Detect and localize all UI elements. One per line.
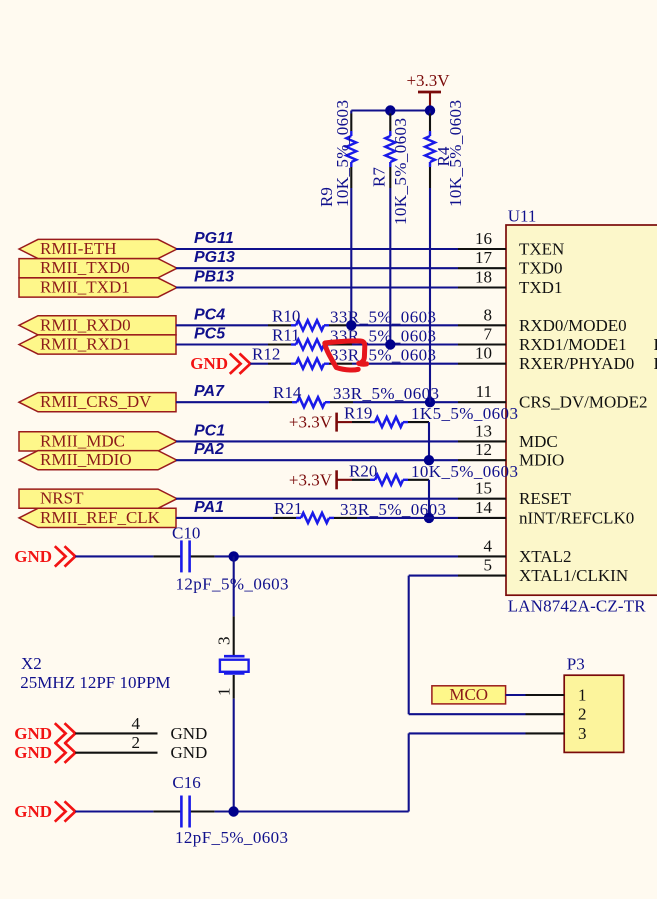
- svg-text:C10: C10: [172, 524, 200, 543]
- resistor R14 33R: [176, 401, 269, 403]
- svg-text:2: 2: [578, 705, 587, 724]
- junction RXD0/R9: [346, 320, 356, 330]
- junction nINT/R20: [424, 513, 434, 523]
- wire XTAL2 down: [233, 556, 235, 616]
- wire R20 to nINT: [428, 480, 430, 518]
- junction rail/R7: [385, 105, 395, 115]
- svg-text:4: 4: [484, 536, 493, 555]
- svg-text:GND: GND: [14, 802, 52, 821]
- svg-text:RMII_TXD0: RMII_TXD0: [40, 258, 130, 277]
- power port GND (X2 pin2): [65, 743, 76, 763]
- IC U11 LAN8742A body: [506, 225, 657, 595]
- svg-text:PG11: PG11: [194, 230, 234, 247]
- wire +3.3V rail: [351, 109, 430, 111]
- svg-text:16: 16: [475, 229, 492, 248]
- wire NRST row: [176, 498, 458, 500]
- svg-text:R19: R19: [344, 404, 372, 423]
- U11 pin 15 RESET: [458, 498, 506, 500]
- svg-text:PB13: PB13: [194, 269, 234, 286]
- resistor R12 33R: [250, 363, 268, 365]
- svg-text:4: 4: [132, 714, 141, 733]
- wire R19 to MDIO: [428, 422, 430, 460]
- svg-text:NRST: NRST: [40, 489, 84, 508]
- resistor R21 33R: [176, 517, 273, 519]
- svg-text:XTAL2: XTAL2: [519, 547, 571, 566]
- U11 pin 13 MDC: [458, 440, 506, 442]
- port RMII_MDC: [19, 432, 177, 451]
- svg-text:RMII-ETH: RMII-ETH: [40, 239, 116, 258]
- U11 pin 5 XTAL1/CLKIN: [458, 575, 506, 577]
- P3 pin 2: [526, 713, 565, 715]
- svg-text:GND: GND: [190, 354, 228, 373]
- svg-text:17: 17: [475, 248, 493, 267]
- svg-text:MCO: MCO: [449, 685, 488, 704]
- wire XTAL1/CLKIN: [409, 575, 458, 577]
- svg-text:33R_5%_0603: 33R_5%_0603: [330, 307, 436, 326]
- svg-text:RXD1/MODE1: RXD1/MODE1: [519, 335, 627, 354]
- port RMII_CRS_DV: [19, 393, 176, 412]
- svg-text:1K5_5%_0603: 1K5_5%_0603: [411, 404, 518, 423]
- annotation red circle around R12 value: [325, 341, 367, 370]
- wire PB13 row: [176, 286, 458, 288]
- wire PG11 row: [176, 248, 458, 250]
- svg-text:GND: GND: [14, 547, 52, 566]
- P3 pin 1: [526, 694, 565, 696]
- svg-text:TXEN: TXEN: [519, 240, 564, 259]
- connector P3 body: [564, 675, 624, 752]
- svg-text:10K_5%_0603: 10K_5%_0603: [391, 118, 410, 225]
- svg-text:25MHZ 12PF 10PPM: 25MHZ 12PF 10PPM: [20, 673, 170, 692]
- svg-text:R14: R14: [273, 383, 302, 402]
- svg-text:RMII_CRS_DV: RMII_CRS_DV: [40, 392, 152, 411]
- svg-text:R20: R20: [349, 461, 377, 480]
- power port GND (C16): [65, 801, 76, 821]
- svg-text:10K_5%_0603: 10K_5%_0603: [333, 100, 352, 207]
- svg-text:13: 13: [475, 421, 492, 440]
- svg-text:MDC: MDC: [519, 432, 558, 451]
- svg-text:PC4: PC4: [194, 306, 225, 323]
- port RMII_TXD0: [19, 259, 177, 278]
- svg-text:RMII_REF_CLK: RMII_REF_CLK: [40, 508, 161, 527]
- svg-text:LAN8742A-CZ-TR: LAN8742A-CZ-TR: [508, 597, 647, 616]
- svg-text:GND: GND: [171, 743, 208, 762]
- svg-text:XTAL1/CLKIN: XTAL1/CLKIN: [519, 566, 628, 585]
- svg-text:PG13: PG13: [194, 249, 235, 266]
- svg-text:PA2: PA2: [194, 441, 224, 458]
- svg-text:11: 11: [476, 382, 492, 401]
- P3 pin 3: [526, 732, 565, 734]
- svg-text:3: 3: [578, 724, 587, 743]
- svg-text:5: 5: [484, 556, 493, 575]
- svg-text:R21: R21: [274, 499, 302, 518]
- svg-text:TXD1: TXD1: [519, 278, 562, 297]
- resistor R11 33R: [176, 343, 268, 345]
- svg-text:15: 15: [475, 479, 492, 498]
- port NRST: [19, 489, 177, 508]
- svg-text:8: 8: [484, 305, 493, 324]
- svg-text:C16: C16: [172, 773, 200, 792]
- svg-text:1: 1: [578, 686, 587, 705]
- junction MDIO/R19: [424, 455, 434, 465]
- power port GND (R12): [240, 354, 251, 374]
- U11 pin 14 nINT/REFCLK0: [458, 517, 506, 519]
- port RMII-ETH: [19, 239, 177, 258]
- U11 pin 7 RXD1/MODE1: [458, 343, 506, 345]
- svg-text:GND: GND: [14, 724, 52, 743]
- svg-text:PC5: PC5: [194, 326, 226, 343]
- U11 pin 16 TXEN: [458, 248, 506, 250]
- X2 pin 4: [75, 732, 157, 734]
- svg-text:LED2: LED2: [654, 354, 657, 373]
- svg-text:7: 7: [484, 325, 493, 344]
- junction CRS_DV/R4: [425, 397, 435, 407]
- power port GND (X2 pin4): [65, 723, 76, 743]
- resistor R10 33R: [176, 324, 268, 326]
- svg-text:RMII_MDC: RMII_MDC: [40, 431, 125, 450]
- svg-text:LED1: LED1: [654, 335, 657, 354]
- svg-text:+3.3V: +3.3V: [289, 470, 333, 489]
- junction rail/R4: [425, 105, 435, 115]
- svg-text:12: 12: [475, 440, 492, 459]
- resistor R19 1K5: [352, 421, 370, 423]
- wire crystal to bottom: [233, 699, 235, 812]
- capacitor C16 12pF: [75, 810, 153, 812]
- svg-text:R7: R7: [370, 167, 389, 187]
- svg-text:RMII_RXD1: RMII_RXD1: [40, 335, 131, 354]
- power port GND (C10): [65, 546, 76, 566]
- svg-text:10K_5%_0603: 10K_5%_0603: [411, 462, 518, 481]
- svg-text:GND: GND: [171, 724, 208, 743]
- port RMII_TXD1: [19, 278, 177, 297]
- junction XTAL2/C10: [229, 551, 239, 561]
- svg-text:R10: R10: [272, 306, 300, 325]
- harness label MCO: [432, 686, 506, 704]
- svg-text:3: 3: [215, 637, 234, 646]
- svg-text:X2: X2: [21, 654, 42, 673]
- svg-text:12pF_5%_0603: 12pF_5%_0603: [176, 575, 289, 594]
- svg-text:14: 14: [475, 498, 493, 517]
- svg-text:33R_5%_0603: 33R_5%_0603: [340, 500, 446, 519]
- svg-text:1: 1: [215, 688, 234, 697]
- wire PA2 row: [176, 459, 458, 461]
- X2 pin 2: [75, 752, 157, 754]
- svg-text:MDIO: MDIO: [519, 451, 564, 470]
- svg-text:GND: GND: [14, 743, 52, 762]
- svg-text:RMII_RXD0: RMII_RXD0: [40, 315, 131, 334]
- U11 pin 18 TXD1: [458, 286, 506, 288]
- U11 pin 8 RXD0/MODE0: [458, 324, 506, 326]
- svg-text:33R_5%_0603: 33R_5%_0603: [330, 346, 436, 365]
- wire PG13 row: [176, 267, 458, 269]
- U11 pin 4 XTAL2: [458, 555, 506, 557]
- wire PC1 row: [176, 440, 458, 442]
- svg-text:U11: U11: [508, 207, 537, 226]
- svg-text:RMII_TXD1: RMII_TXD1: [40, 278, 130, 297]
- resistor R20 10K: [352, 479, 370, 481]
- svg-text:33R_5%_0603: 33R_5%_0603: [333, 384, 439, 403]
- svg-text:RESET: RESET: [519, 489, 572, 508]
- svg-text:nINT/REFCLK0: nINT/REFCLK0: [519, 508, 634, 527]
- svg-text:RMII_MDIO: RMII_MDIO: [40, 450, 132, 469]
- svg-text:P3: P3: [567, 655, 585, 674]
- resistor R9 10K pull-up: [350, 111, 352, 114]
- svg-text:+3.3V: +3.3V: [406, 71, 450, 90]
- port RMII_MDIO: [19, 451, 177, 470]
- U11 pin 10 RXER/PHYAD0: [458, 363, 506, 365]
- svg-text:R11: R11: [272, 326, 300, 345]
- crystal X2 25MHZ: [233, 616, 235, 655]
- wire bottom to P3 pin3: [408, 733, 410, 811]
- svg-text:18: 18: [475, 268, 492, 287]
- power port +3.3V (R20): [335, 470, 338, 489]
- svg-text:12pF_5%_0603: 12pF_5%_0603: [175, 828, 288, 847]
- svg-text:R12: R12: [252, 345, 280, 364]
- power port +3.3V (R19): [335, 413, 338, 432]
- svg-text:PA1: PA1: [194, 499, 224, 516]
- junction crystal/C16: [228, 806, 238, 816]
- U11 pin 11 CRS_DV/MODE2: [458, 401, 506, 403]
- capacitor C10 12pF: [75, 555, 153, 557]
- port RMII_RXD0: [19, 316, 176, 335]
- svg-text:10: 10: [475, 344, 492, 363]
- U11 pin 17 TXD0: [458, 267, 506, 269]
- svg-text:RXD0/MODE0: RXD0/MODE0: [519, 316, 627, 335]
- junction RXD1/R7: [385, 339, 395, 349]
- svg-text:RXER/PHYAD0: RXER/PHYAD0: [519, 354, 634, 373]
- svg-text:PC1: PC1: [194, 422, 225, 439]
- resistor R7 10K pull-up: [389, 111, 391, 114]
- svg-text:+3.3V: +3.3V: [289, 413, 333, 432]
- port RMII_RXD1: [19, 335, 176, 354]
- svg-text:2: 2: [132, 733, 141, 752]
- svg-text:CRS_DV/MODE2: CRS_DV/MODE2: [519, 393, 647, 412]
- wire MCO to P3 pin1: [506, 694, 526, 696]
- svg-text:TXD0: TXD0: [519, 259, 562, 278]
- resistor R4 10K pull-up: [429, 111, 431, 114]
- port RMII_REF_CLK: [19, 508, 176, 527]
- svg-text:10K_5%_0603: 10K_5%_0603: [446, 100, 465, 207]
- power port +3.3V (top): [418, 91, 441, 94]
- U11 pin 12 MDIO: [458, 459, 506, 461]
- svg-text:PA7: PA7: [194, 383, 225, 400]
